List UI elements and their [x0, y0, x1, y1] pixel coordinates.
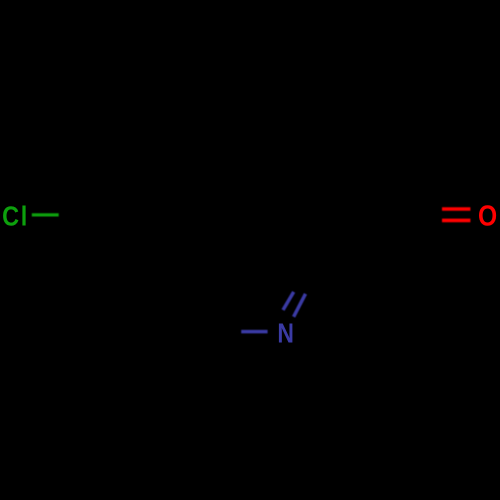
svg-text:N: N: [277, 319, 294, 350]
bond Cl-C6 (chlorine half-segment): [32, 213, 59, 216]
double bond N=C2 main line (nitrogen half-segment): [294, 294, 306, 317]
bond C8a-N (nitrogen half-segment): [241, 330, 267, 334]
double bond C=O bottom line (oxygen half-segment): [442, 219, 470, 223]
double bond N=C2 inner line (nitrogen half-segment): [283, 292, 294, 310]
double bond C=O top line (oxygen half-segment): [442, 207, 470, 210]
svg-text:Cl: Cl: [2, 202, 29, 232]
svg-text:O: O: [478, 200, 497, 232]
